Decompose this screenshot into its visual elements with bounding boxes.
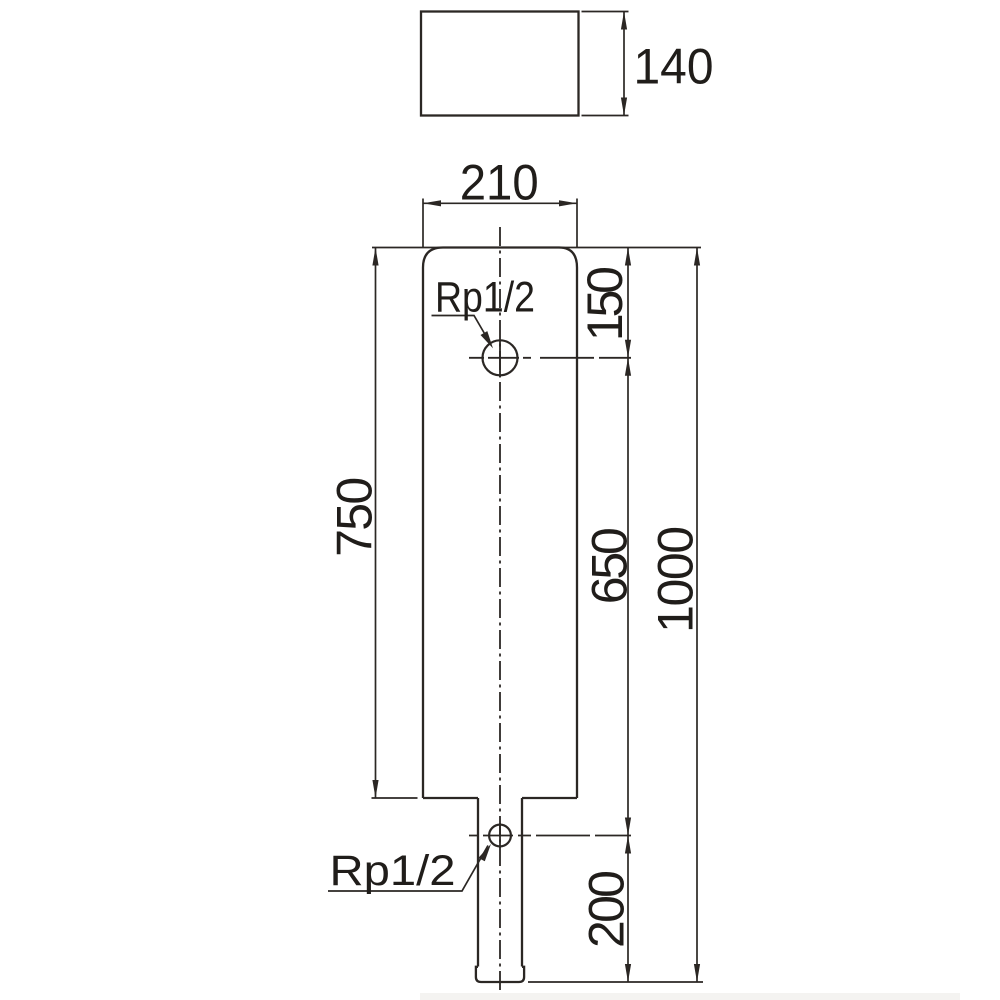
svg-text:1000: 1000: [648, 526, 704, 633]
svg-text:Rp1/2: Rp1/2: [330, 847, 456, 895]
svg-text:210: 210: [460, 155, 539, 211]
svg-text:750: 750: [327, 477, 383, 557]
svg-text:140: 140: [634, 39, 714, 95]
svg-text:650: 650: [582, 527, 638, 604]
svg-text:200: 200: [579, 870, 635, 948]
svg-text:Rp1/2: Rp1/2: [435, 274, 535, 322]
svg-text:150: 150: [577, 266, 633, 341]
